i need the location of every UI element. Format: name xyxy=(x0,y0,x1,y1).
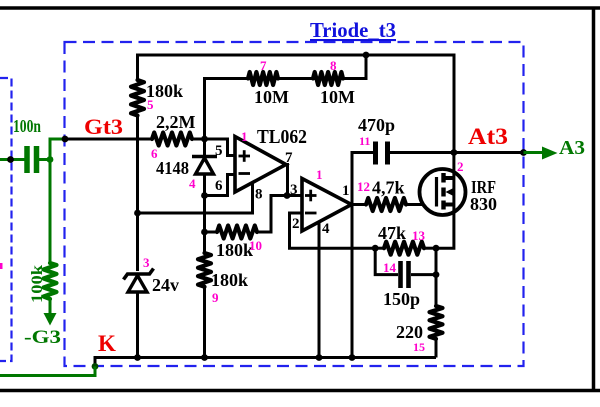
capacitor C14 150p xyxy=(375,248,398,274)
wire pin4 to K rail xyxy=(318,222,321,358)
resistor R12 4,7k xyxy=(366,198,406,211)
wire green arrow -G3 xyxy=(49,299,52,315)
svg-text:11: 11 xyxy=(359,134,370,148)
svg-text:2: 2 xyxy=(292,216,300,232)
wire op1 output xyxy=(286,165,302,196)
svg-text:-G3: -G3 xyxy=(24,327,61,348)
resistor R8 10M xyxy=(313,72,343,85)
wire pin2 feedback xyxy=(290,213,376,248)
wire At3 to A3 xyxy=(454,151,524,154)
svg-text:4: 4 xyxy=(189,176,196,191)
svg-text:4148: 4148 xyxy=(156,158,189,178)
node rail junction xyxy=(363,52,370,59)
svg-text:3: 3 xyxy=(290,182,298,198)
svg-text:150p: 150p xyxy=(383,289,420,309)
svg-text:A3: A3 xyxy=(559,137,585,159)
node K rail junctions xyxy=(134,354,141,361)
diode D4 4148 xyxy=(192,155,217,159)
clipped magenta label left stage xyxy=(0,263,3,269)
svg-text:1: 1 xyxy=(316,167,323,182)
resistor 100k xyxy=(44,263,57,299)
wire 180k9 branch xyxy=(203,232,206,253)
svg-text:At3: At3 xyxy=(468,124,508,149)
svg-text:100k: 100k xyxy=(29,265,46,303)
zener D3 24v xyxy=(124,269,154,280)
wire between 10M xyxy=(278,77,313,80)
svg-text:8: 8 xyxy=(255,187,263,203)
wire green to Gt3 xyxy=(50,139,65,160)
wire green down to 100k xyxy=(49,160,52,264)
resistor R13 47k xyxy=(372,245,379,252)
wire green K out xyxy=(0,366,95,375)
capacitor C11 470p xyxy=(352,153,373,358)
svg-text:6: 6 xyxy=(215,178,223,194)
svg-text:2,2M: 2,2M xyxy=(156,112,196,132)
wire pin6 xyxy=(205,175,236,196)
node op1 out xyxy=(284,192,291,199)
svg-text:24v: 24v xyxy=(152,275,179,295)
svg-text:12: 12 xyxy=(357,179,370,194)
node input boundary dot xyxy=(7,156,14,163)
svg-text:5: 5 xyxy=(147,97,154,112)
op-amp U1B xyxy=(302,179,352,232)
wire diode branch xyxy=(203,139,206,157)
wire gate xyxy=(406,203,437,206)
svg-text:220: 220 xyxy=(396,322,423,342)
svg-text:15: 15 xyxy=(413,340,425,354)
resistor R7 10M xyxy=(248,72,278,85)
wire K rail xyxy=(95,358,436,367)
wire Gt3 to pin5 xyxy=(192,139,235,156)
node At3 xyxy=(451,149,458,156)
node green junction xyxy=(47,156,54,163)
wire feedback top xyxy=(205,79,249,140)
svg-text:3: 3 xyxy=(143,255,150,270)
svg-text:10M: 10M xyxy=(254,87,289,107)
svg-text:47k: 47k xyxy=(378,223,406,243)
frame right border xyxy=(592,8,596,391)
svg-text:Gt3: Gt3 xyxy=(84,114,123,139)
transistor Q2 IRF830 xyxy=(420,169,466,215)
svg-text:5: 5 xyxy=(215,143,223,159)
svg-text:7: 7 xyxy=(260,58,267,73)
svg-text:830: 830 xyxy=(470,194,497,214)
resistor R10 180k xyxy=(217,226,257,239)
node diode bottom xyxy=(201,192,208,199)
svg-text:10: 10 xyxy=(249,238,262,253)
svg-text:Triode_t3: Triode_t3 xyxy=(310,18,396,42)
wire top rail xyxy=(138,55,455,153)
svg-text:13: 13 xyxy=(412,228,426,243)
op-amp U1A TL062 xyxy=(235,137,286,193)
wire Gt3 horizontal xyxy=(65,138,152,141)
svg-text:TL062: TL062 xyxy=(257,126,307,148)
resistor R6 2,2M xyxy=(152,133,192,146)
wire green input xyxy=(0,158,25,161)
svg-text:8: 8 xyxy=(330,58,337,73)
svg-text:9: 9 xyxy=(212,290,219,305)
frame bottom border xyxy=(0,389,600,393)
frame top border xyxy=(0,6,600,10)
node 180k10 junction xyxy=(201,229,208,236)
svg-text:180k: 180k xyxy=(216,240,253,260)
wire 180k10 branch xyxy=(203,196,206,233)
svg-text:K: K xyxy=(98,331,116,356)
wire 10M up to rail xyxy=(343,55,366,79)
dashed box Triode t3 xyxy=(65,42,524,366)
resistor R9 180k xyxy=(198,253,211,287)
node A3 arrow xyxy=(524,151,546,154)
svg-text:14: 14 xyxy=(383,260,397,275)
wire op2 output xyxy=(352,203,367,206)
svg-text:4: 4 xyxy=(322,221,330,237)
svg-text:10M: 10M xyxy=(320,87,355,107)
svg-text:180k: 180k xyxy=(211,270,248,290)
wire 180k down to K rail xyxy=(136,116,139,272)
resistor R5 180k (drawn over rail) xyxy=(130,80,146,115)
capacitor 100n xyxy=(27,146,37,173)
wire pin8 xyxy=(138,182,253,213)
svg-text:1: 1 xyxy=(241,129,248,144)
svg-text:470p: 470p xyxy=(358,115,395,135)
svg-text:4,7k: 4,7k xyxy=(372,178,405,198)
svg-text:100n: 100n xyxy=(13,116,41,136)
wire source xyxy=(436,205,454,249)
node K boundary dot xyxy=(92,363,99,370)
resistor R15 220 xyxy=(435,248,438,306)
svg-text:2: 2 xyxy=(457,159,464,174)
node Gt3-diode junction xyxy=(201,136,208,143)
node pin8 junction xyxy=(134,210,141,217)
svg-text:1: 1 xyxy=(342,183,350,199)
dashed box left stage (clipped) xyxy=(0,78,12,361)
